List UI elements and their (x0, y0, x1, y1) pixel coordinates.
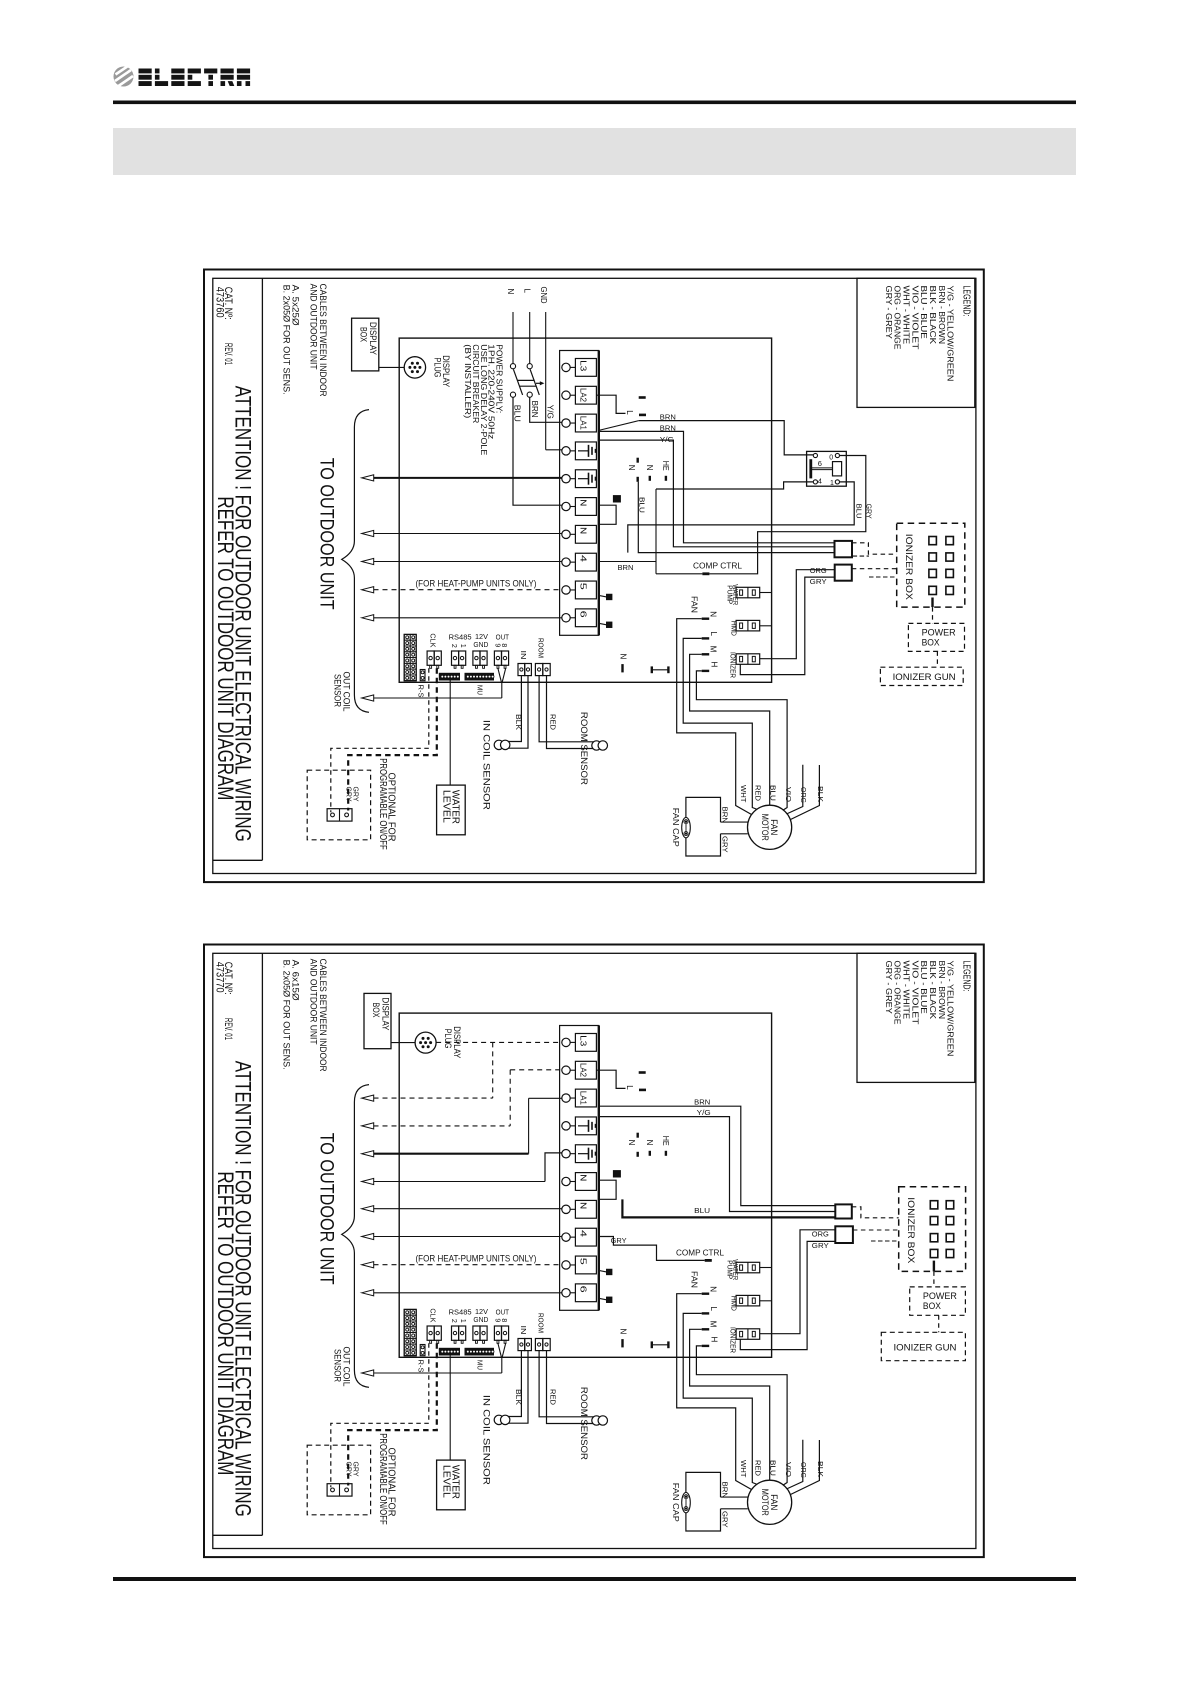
N terminal jog (599, 505, 616, 524)
terminal 6 box (575, 1284, 596, 1302)
bottom rule (113, 1577, 1076, 1581)
svg-text:RED: RED (548, 1389, 557, 1406)
ionizer connector box lower (835, 565, 852, 581)
wire water pump (760, 1267, 772, 1269)
fan wire M-BLU (690, 654, 770, 806)
svg-text:ORG: ORG (799, 787, 808, 803)
wire BRN LA1 to relay (599, 421, 639, 431)
svg-text:N: N (506, 289, 515, 295)
LA2 stub jog (596, 1070, 625, 1088)
svg-text:9: 9 (494, 1318, 501, 1322)
stub mark (639, 396, 646, 399)
wire to terminal 6 (374, 617, 562, 619)
svg-text:B. 2x05Ø FOR OUT SENS.: B. 2x05Ø FOR OUT SENS. (280, 960, 291, 1070)
svg-text:GRY: GRY (812, 1241, 829, 1250)
svg-text:BLK: BLK (514, 714, 523, 730)
wire display box to plug (391, 1042, 415, 1044)
fan tap tick M (702, 653, 710, 655)
terminal N box (575, 498, 596, 516)
wire to earth terminal 2 (374, 477, 562, 479)
terminal 4 box (575, 1228, 596, 1246)
inner border (213, 278, 976, 873)
svg-text:BLU: BLU (769, 1460, 778, 1476)
switch (327, 1484, 352, 1496)
title block divider (261, 953, 263, 1535)
svg-text:RS485: RS485 (449, 633, 472, 642)
arrow wire to terminal 5 (heat pump) (362, 587, 374, 593)
svg-text:N: N (619, 654, 628, 660)
jumper ROOM (535, 1339, 542, 1351)
fan motor (748, 1480, 792, 1524)
svg-text:IN COIL SENSOR: IN COIL SENSOR (482, 1395, 492, 1486)
stub mark comp ctrl (705, 1259, 712, 1262)
jumper RS485 (452, 1326, 459, 1340)
svg-text:BRN: BRN (530, 401, 539, 418)
svg-text:BLU: BLU (513, 405, 522, 422)
fan wire M-BLU (690, 1329, 770, 1481)
svg-text:ROOM: ROOM (537, 1313, 546, 1333)
terminal N box (575, 525, 596, 543)
svg-text:M: M (709, 646, 718, 653)
switch (327, 809, 352, 821)
svg-text:9: 9 (494, 643, 501, 647)
dashed link to power box (931, 598, 933, 608)
svg-text:FAN CAP: FAN CAP (671, 808, 680, 847)
earth symbol (578, 1153, 589, 1155)
svg-text:Y/G: Y/G (660, 435, 674, 444)
outer border (204, 945, 984, 1558)
display box (352, 318, 379, 371)
wire N to terminal (513, 397, 562, 505)
fan tap tick L (702, 637, 710, 639)
svg-text:IN: IN (519, 1326, 528, 1335)
svg-text:LA2: LA2 (579, 1063, 588, 1078)
out sensor V wires (498, 668, 502, 682)
svg-text:N: N (708, 611, 717, 617)
room sensor probe (592, 741, 601, 750)
ionizer connector box upper (835, 541, 853, 557)
room sensor probe (592, 1416, 601, 1425)
svg-text:GRY: GRY (721, 836, 730, 853)
in coil sensor wires (507, 676, 521, 742)
svg-text:LEGEND:: LEGEND: (960, 286, 971, 317)
svg-text:HMD: HMD (729, 621, 738, 637)
svg-text:COMP CTRL: COMP CTRL (676, 1248, 725, 1257)
arrow out coil sensor (362, 1370, 374, 1376)
relay pin 1 (835, 480, 839, 484)
svg-text:REFER TO OUTDOOR UNIT DIAGRAM: REFER TO OUTDOOR UNIT DIAGRAM (213, 1171, 238, 1475)
svg-text:VIO: VIO (784, 787, 793, 802)
svg-text:TO OUTDOOR UNIT: TO OUTDOOR UNIT (315, 1133, 336, 1285)
svg-text:ORG: ORG (812, 1230, 829, 1239)
svg-text:N: N (579, 1174, 588, 1181)
ionizer gun (dashed) (881, 1332, 965, 1360)
svg-text:R-S: R-S (416, 1360, 425, 1373)
legend box (857, 278, 975, 407)
jumper 12V GND (473, 651, 480, 665)
svg-text:GRY - GREY: GRY - GREY (884, 286, 894, 340)
terminal 5 row 9 screw (562, 586, 570, 594)
R-S header (420, 1345, 425, 1356)
earth symbol (578, 478, 589, 480)
dashed wires CLK to optional switch (331, 668, 429, 812)
link symbol (651, 666, 653, 673)
terminal strip (560, 351, 599, 636)
fan capacitor (682, 817, 691, 837)
terminal LA1 row 3 screw (562, 1094, 570, 1102)
link symbol (651, 1341, 653, 1348)
terminal LA2 row 2 screw (562, 1066, 570, 1074)
legend box (857, 953, 975, 1082)
svg-text:RS485: RS485 (449, 1308, 472, 1317)
svg-text:AND OUTDOOR UNIT: AND OUTDOOR UNIT (307, 284, 318, 370)
svg-text:BLU: BLU (694, 1206, 710, 1215)
svg-text:1: 1 (459, 1319, 466, 1323)
relay pin 6 (813, 453, 817, 457)
svg-text:PUMP: PUMP (725, 1260, 734, 1279)
svg-text:6: 6 (818, 459, 822, 468)
main control board box (399, 338, 771, 682)
svg-text:IONIZER GUN: IONIZER GUN (893, 672, 956, 683)
svg-text:REFER TO OUTDOOR UNIT DIAGRAM: REFER TO OUTDOOR UNIT DIAGRAM (213, 496, 238, 800)
terminal LA2 row 2 screw (562, 391, 570, 399)
svg-text:ORG: ORG (799, 1462, 808, 1478)
terminal L3 row 1 screw (562, 363, 570, 371)
water level wire (449, 1355, 451, 1460)
jumper CLK (427, 1326, 434, 1340)
wire water pump (760, 592, 772, 594)
fan wire BLK stub (790, 1440, 820, 1495)
terminal 5 box (575, 581, 596, 599)
svg-text:GRY: GRY (611, 1236, 627, 1245)
dashed wire plug to L3 (436, 1041, 562, 1043)
terminal GND box (575, 1145, 596, 1163)
ionizer box (dashed) (897, 523, 965, 607)
svg-text:L: L (625, 1085, 634, 1090)
svg-text:4: 4 (579, 555, 588, 563)
arrow to earth terminal 2 (362, 1178, 374, 1184)
svg-text:Y/G: Y/G (545, 405, 554, 419)
svg-text:MU: MU (476, 685, 485, 695)
terminal GND row 5 screw (562, 1149, 570, 1157)
svg-text:ROOM SENSOR: ROOM SENSOR (579, 1387, 589, 1461)
svg-text:REV. 01: REV. 01 (222, 343, 234, 365)
svg-text:WHT: WHT (739, 785, 748, 803)
svg-text:(BY INSTALLER): (BY INSTALLER) (463, 344, 473, 418)
title block divider (261, 278, 263, 860)
svg-text:LEVEL: LEVEL (440, 1465, 452, 1498)
ionizer connector box lower (835, 1226, 853, 1243)
svg-text:6: 6 (579, 611, 588, 619)
svg-text:IONIZER: IONIZER (729, 1327, 738, 1353)
connector WATER PUMP (736, 1262, 760, 1273)
terminal 4 box (575, 553, 596, 571)
terminal stub with end mark (599, 1298, 607, 1300)
svg-text:OUT: OUT (496, 1308, 510, 1317)
terminal LA1 box (575, 414, 596, 432)
svg-text:H: H (709, 1337, 718, 1343)
connector IONIZER (736, 654, 760, 665)
svg-text:0: 0 (829, 455, 833, 462)
jumper IN (518, 1339, 525, 1351)
svg-text:LA1: LA1 (579, 416, 588, 431)
fan tap tick M (702, 1328, 710, 1330)
relay pin 4 (813, 480, 817, 484)
wire BRN to motor (721, 1496, 748, 1498)
fan motor (748, 805, 792, 849)
svg-text:RED: RED (753, 1460, 762, 1477)
svg-text:FAN CAP: FAN CAP (671, 1483, 680, 1522)
power box (dashed) (910, 1287, 966, 1315)
wire GRY ionizer connector to box (740, 577, 834, 675)
Electra logo mark (114, 66, 134, 87)
fan tap tick H (702, 1345, 710, 1347)
svg-text:BOX: BOX (923, 1301, 942, 1312)
svg-text:BRN: BRN (660, 424, 676, 433)
ionizer box (dashed) (899, 1187, 966, 1272)
MU headers (439, 673, 459, 680)
fan tap tick L (702, 1312, 710, 1314)
terminal 6 box (575, 609, 596, 627)
MU headers (439, 1348, 459, 1355)
wire L to LA1 (530, 397, 562, 422)
terminal N row 7 screw (562, 530, 570, 538)
svg-text:MOTOR: MOTOR (760, 814, 770, 841)
fan wire ORG stub (787, 765, 803, 814)
svg-text:OUT: OUT (496, 633, 510, 642)
arrow wire to terminal 4 (362, 558, 374, 564)
stub mark comp ctrl (702, 572, 709, 575)
svg-text:IONIZER BOX: IONIZER BOX (906, 1197, 916, 1263)
fan tap tick N (702, 1292, 710, 1294)
svg-text:BOX: BOX (358, 327, 369, 342)
terminal 4 row 8 screw (562, 1233, 570, 1241)
arrow to terminal 4 (362, 1233, 374, 1239)
inner border (213, 953, 976, 1548)
svg-text:FAN: FAN (689, 596, 699, 613)
jumper ROOM (535, 664, 542, 676)
svg-text:L: L (625, 410, 634, 415)
fan wire L-RED (683, 638, 757, 809)
main control board box (399, 1013, 771, 1357)
svg-text:R-S: R-S (416, 685, 425, 698)
terminal 6 row 10 screw (562, 1289, 570, 1297)
svg-text:LEVEL: LEVEL (440, 790, 452, 823)
wire BRN LA1 to connector (599, 1106, 836, 1205)
stub mark (639, 1089, 646, 1092)
svg-text:IN: IN (519, 651, 528, 660)
svg-text:PLUG: PLUG (433, 358, 443, 378)
svg-text:FAN: FAN (689, 1271, 699, 1288)
fan cap wiring loop (686, 1472, 721, 1531)
svg-text:N: N (579, 1202, 588, 1209)
dashed link to ionizer gun (936, 651, 938, 667)
room sensor wires (539, 676, 594, 742)
svg-text:LA1: LA1 (579, 1091, 588, 1106)
terminal N row 7 screw (562, 1205, 570, 1213)
arrow to terminal 6 (362, 1290, 374, 1296)
svg-text:1: 1 (459, 644, 466, 648)
LA2 stub jog (596, 395, 625, 413)
terminal L3 row 1 screw (562, 1038, 570, 1046)
stub mark (639, 414, 646, 417)
arrow wire to N terminal 2 (362, 530, 374, 536)
connector WATER PUMP (736, 587, 760, 598)
wire earth 2 jog (545, 1153, 562, 1182)
dashed link to ionizer gun (938, 1315, 940, 1332)
svg-text:(FOR HEAT-PUMP UNITS ONLY): (FOR HEAT-PUMP UNITS ONLY) (416, 1254, 537, 1264)
wire ORG ionizer connector to box (760, 570, 835, 659)
water level wire (449, 680, 451, 785)
svg-text:N: N (579, 527, 588, 534)
in coil sensor wires (507, 1351, 521, 1417)
svg-text:2: 2 (450, 644, 457, 648)
svg-text:WHT: WHT (739, 1460, 748, 1478)
svg-text:L: L (709, 1307, 718, 1312)
svg-text:BLU: BLU (638, 497, 647, 513)
svg-text:HE: HE (661, 461, 670, 471)
stub mark (639, 1071, 646, 1074)
svg-text:N: N (645, 1140, 654, 1146)
svg-text:473760: 473760 (213, 287, 225, 318)
wire GRY terminal 4 to comp ctrl (599, 1237, 705, 1261)
relay pin 0 (835, 453, 839, 457)
terminal LA2 box (575, 386, 596, 404)
svg-text:5: 5 (579, 1258, 588, 1266)
dashed links to ionizer box (852, 1207, 899, 1218)
wire terminal 4 / comp ctrl junction (655, 489, 657, 574)
terminal LA1 row 3 screw (562, 419, 570, 427)
svg-text:GRY: GRY (810, 577, 827, 586)
wire out coil sensor (374, 697, 502, 699)
svg-text:VIO: VIO (784, 1462, 793, 1477)
jumper CLK (427, 651, 434, 665)
svg-text:8: 8 (500, 1318, 507, 1322)
terminal N box (575, 1173, 596, 1191)
svg-text:CLK: CLK (429, 633, 438, 647)
svg-text:COMP CTRL: COMP CTRL (693, 562, 743, 571)
svg-text:GND: GND (473, 1315, 489, 1324)
svg-text:BLU: BLU (855, 504, 864, 519)
svg-text:N: N (627, 465, 636, 471)
relay box (807, 451, 847, 486)
svg-text:LA2: LA2 (579, 388, 588, 403)
terminal GND box (575, 1117, 596, 1135)
out sensor V wires (498, 1343, 502, 1357)
connector HMD (736, 1295, 760, 1306)
terminal stub with end mark (599, 1270, 607, 1272)
in coil sensor probe (494, 1415, 503, 1424)
connector IONIZER (736, 1329, 760, 1340)
jumper OUT (494, 651, 501, 665)
terminal GND row 4 screw (562, 447, 570, 455)
terminal LA1 box (575, 1089, 596, 1107)
svg-text:AND OUTDOOR UNIT: AND OUTDOOR UNIT (307, 959, 318, 1045)
svg-text:N: N (708, 1286, 717, 1292)
terminal N box (575, 1200, 596, 1218)
earth symbol (578, 1125, 589, 1127)
svg-text:RED: RED (548, 714, 557, 731)
svg-text:IONIZER BOX: IONIZER BOX (904, 534, 914, 600)
fan wire N-WHT (677, 619, 752, 815)
svg-text:GRY - GREY: GRY - GREY (884, 961, 894, 1015)
svg-text:B. 2x05Ø FOR OUT SENS.: B. 2x05Ø FOR OUT SENS. (280, 285, 291, 395)
svg-text:LEGEND:: LEGEND: (960, 961, 971, 992)
power box (dashed) (908, 623, 964, 651)
svg-text:BRN: BRN (660, 413, 676, 422)
svg-text:BLK: BLK (514, 1389, 523, 1405)
dashed wires CLK to optional switch (331, 1343, 429, 1487)
R-S header (420, 670, 425, 681)
arrow thick to LA1 (362, 1151, 374, 1157)
arrow dashed to display node (362, 1095, 374, 1101)
svg-text:SENSOR: SENSOR (333, 1349, 343, 1382)
svg-text:GRY: GRY (352, 1462, 361, 1477)
terminal strip heavy edge (598, 351, 600, 636)
svg-text:GRY: GRY (721, 1511, 730, 1528)
connector HMD (736, 620, 760, 631)
circuit breaker 2-pole (510, 364, 515, 369)
svg-text:IONIZER GUN: IONIZER GUN (894, 1342, 957, 1353)
svg-text:M: M (709, 1321, 718, 1328)
jumper 12V GND (473, 1326, 480, 1340)
wire ORG ionizer connector to box (760, 1230, 836, 1334)
terminal GND box (575, 442, 596, 460)
svg-text:BRN: BRN (721, 1482, 730, 1499)
svg-text:MU: MU (476, 1360, 485, 1370)
relay contact bar (809, 459, 812, 478)
relay coil (833, 462, 842, 476)
terminal L3 box (575, 1034, 596, 1052)
fan wire H-VIO (696, 671, 787, 811)
wire Y/G to connector (599, 440, 835, 547)
wire BRN 2 to connector (599, 431, 835, 542)
svg-text:L: L (523, 289, 532, 294)
svg-text:BRN: BRN (721, 807, 730, 824)
wire GRY ionizer connector to box (740, 1241, 835, 1349)
fan tap tick H (702, 670, 710, 672)
jumper RS485 (452, 651, 459, 665)
svg-text:BLU: BLU (769, 785, 778, 801)
dashed link to power box (933, 1261, 935, 1272)
in coil sensor probe (494, 740, 503, 749)
svg-text:PROGRAMABLE ON/OFF: PROGRAMABLE ON/OFF (377, 1433, 389, 1525)
main pin header 2x8 (404, 1309, 416, 1355)
wire BLU to connector (622, 1199, 835, 1217)
svg-text:GRY: GRY (352, 787, 361, 802)
svg-text:6: 6 (579, 1286, 588, 1294)
water level box (437, 1460, 466, 1510)
svg-text:4: 4 (818, 477, 822, 486)
wire hmd (760, 1300, 772, 1302)
jumper OUT (494, 1326, 501, 1340)
svg-text:BRN: BRN (694, 1098, 710, 1107)
water level box (437, 785, 466, 835)
ionizer gun (dashed) (880, 667, 963, 685)
fan tap tick N (702, 618, 710, 620)
terminal N row 6 screw (562, 1177, 570, 1185)
filled stub (613, 496, 620, 502)
terminal strip heavy edge (598, 1026, 600, 1311)
terminal LA2 box (575, 1061, 596, 1079)
terminal stub with end mark (599, 623, 607, 625)
display box (364, 993, 391, 1048)
arrow to terminal 5 (heat pump) (362, 1262, 374, 1268)
svg-text:RED: RED (753, 785, 762, 802)
arrow wire out coil sensor (362, 695, 374, 701)
fan cap wiring loop (686, 797, 721, 856)
svg-text:BOX: BOX (922, 638, 941, 649)
